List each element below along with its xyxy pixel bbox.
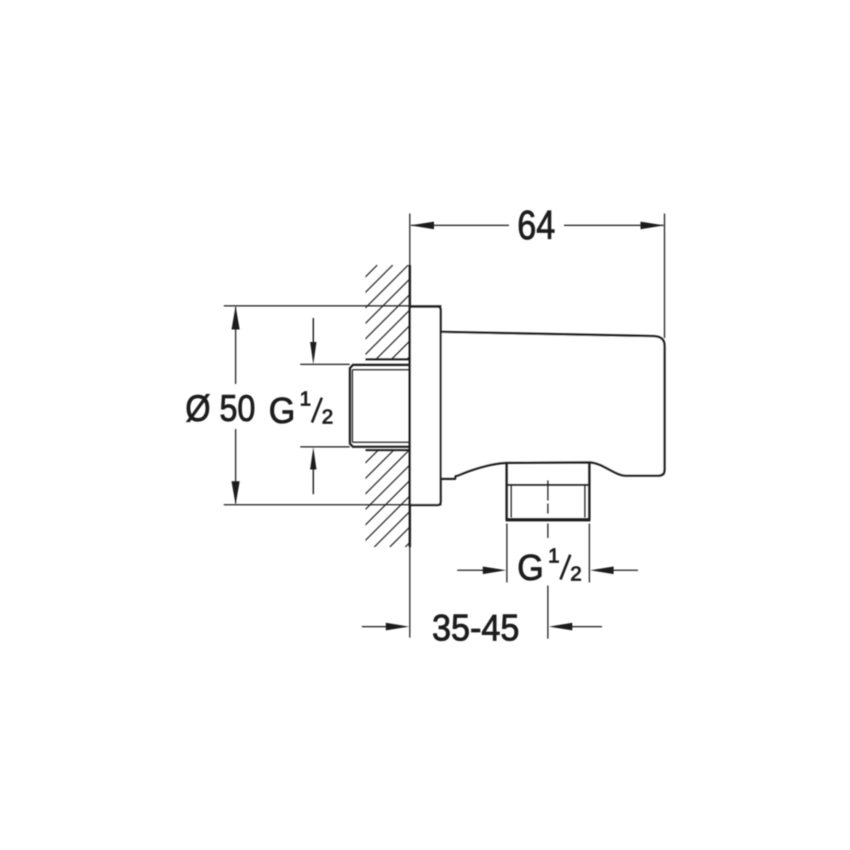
body outline xyxy=(441,332,665,479)
outlet bottom bar xyxy=(506,518,591,521)
svg-text:1: 1 xyxy=(300,387,311,410)
dim D50 line upper segment xyxy=(235,307,237,384)
label G1/2 left xyxy=(269,387,333,431)
svg-text:1: 1 xyxy=(548,544,559,567)
dim 64 arrow right xyxy=(641,222,665,230)
dim D50 line lower segment xyxy=(235,429,237,504)
dim G1/2 bottom right arrow xyxy=(612,569,638,571)
svg-text:35-45: 35-45 xyxy=(432,606,520,648)
dim G1/2 left top line xyxy=(300,363,350,365)
dim G1/2 left bottom line xyxy=(300,446,350,448)
wall extension line top (64 dim) xyxy=(409,214,411,266)
inlet nipple thread outline xyxy=(350,365,410,447)
wall notch top edge xyxy=(366,358,410,360)
dim G1/2 left down arrow xyxy=(312,318,314,344)
dim 35-45 left arrow xyxy=(362,626,388,628)
flange (escutcheon) xyxy=(410,307,441,505)
outlet thread root lines xyxy=(510,486,512,518)
outlet collar line xyxy=(507,484,590,486)
dim G1/2 bottom left arrow xyxy=(457,569,484,571)
dim 64 extension line right xyxy=(664,214,666,339)
svg-text:64: 64 xyxy=(517,202,555,248)
dim G1/2 bottom extension line right xyxy=(588,524,590,583)
outlet left edge xyxy=(505,463,507,520)
label G1/2 bottom xyxy=(517,544,581,588)
dim 64 line right segment xyxy=(564,224,664,226)
dim 64 line left segment xyxy=(411,224,509,226)
svg-text:G: G xyxy=(269,390,296,431)
dim D50 arrow up xyxy=(232,306,240,330)
wall notch bottom edge xyxy=(366,449,410,451)
dim D50 extension line top xyxy=(224,305,442,307)
svg-text:2: 2 xyxy=(570,562,581,585)
dim G1/2 bottom extension line left xyxy=(506,524,508,583)
dim 35-45 right arrow xyxy=(571,626,602,628)
svg-text:G: G xyxy=(517,547,544,588)
dim G1/2 left up arrow xyxy=(312,468,314,494)
outlet right edge xyxy=(588,462,590,520)
inlet nipple thread root lines xyxy=(352,370,409,443)
wall hatching xyxy=(95,265,687,547)
dim D50 arrow down xyxy=(232,481,240,505)
dim D50 extension line bottom xyxy=(224,504,442,506)
wall face line xyxy=(409,265,411,547)
outlet centerline dashes xyxy=(547,481,549,639)
svg-text:Ø 50: Ø 50 xyxy=(185,387,255,429)
wall extension line bottom (35-45 dim) xyxy=(409,547,411,638)
svg-text:2: 2 xyxy=(322,405,333,428)
dim 64 arrow left xyxy=(410,222,434,230)
